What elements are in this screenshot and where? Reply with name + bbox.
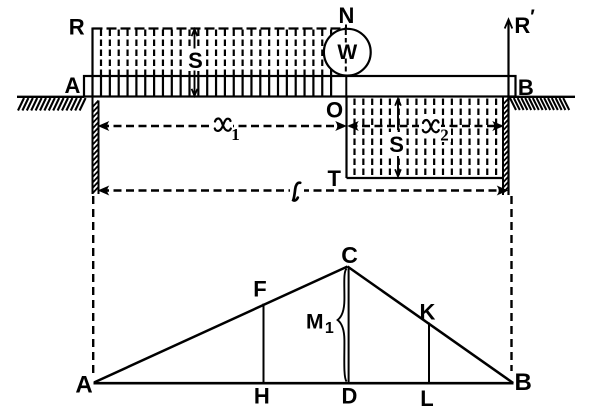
- dimension l: [99, 178, 507, 203]
- label x1: [215, 119, 231, 131]
- svg-text:W: W: [337, 41, 357, 64]
- svg-text:1: 1: [231, 125, 240, 144]
- dimension arrow S (left): [186, 29, 205, 96]
- moment line C-B: [348, 267, 514, 384]
- svg-text:A: A: [64, 73, 80, 98]
- svg-text:N: N: [339, 3, 355, 28]
- svg-text:L: L: [420, 386, 433, 411]
- ordinate K-L: [428, 323, 430, 383]
- support line R: [91, 28, 93, 97]
- dashed projection line right: [510, 196, 512, 371]
- brace M1: [338, 269, 347, 382]
- wheel load W circle: [324, 29, 371, 76]
- svg-text:C: C: [341, 242, 358, 268]
- dimension x1: [99, 114, 346, 135]
- line N-O through wheel: [345, 25, 348, 97]
- svg-text:A: A: [75, 372, 92, 399]
- svg-text:T: T: [327, 166, 341, 191]
- ground left: [17, 97, 86, 111]
- svg-text:B: B: [515, 369, 532, 396]
- ordinate C-D: [348, 268, 350, 382]
- svg-text:′: ′: [530, 7, 535, 28]
- dimension arrow S (right): [388, 99, 406, 177]
- ground right: [509, 97, 576, 110]
- svg-text:K: K: [420, 300, 436, 325]
- svg-text:D: D: [342, 384, 358, 409]
- left wall strip (hatched) below A: [93, 97, 99, 195]
- dashed projection line left: [92, 196, 94, 373]
- svg-text:O: O: [326, 98, 343, 123]
- svg-text:B: B: [518, 75, 534, 100]
- svg-text:R: R: [514, 13, 530, 38]
- baseline A-B: [94, 382, 514, 385]
- distributed load S (right span, under beam): [347, 97, 504, 179]
- svg-text:F: F: [253, 277, 266, 302]
- svg-text:S: S: [188, 48, 203, 73]
- right wall strip (hatched) below B: [503, 97, 509, 196]
- label x2: [437, 127, 451, 142]
- beam AB: [84, 76, 516, 97]
- svg-text:2: 2: [440, 126, 449, 145]
- svg-text:H: H: [254, 384, 270, 409]
- distributed load S (left span): [93, 29, 347, 97]
- svg-text:R: R: [69, 15, 85, 40]
- moment line A-C: [94, 267, 348, 383]
- dimension x2: [349, 114, 503, 135]
- svg-text:M: M: [306, 311, 324, 334]
- support line R' with arrow: [505, 20, 513, 97]
- label l: [293, 183, 300, 201]
- ordinate F-H: [263, 304, 265, 383]
- svg-text:S: S: [389, 132, 404, 157]
- svg-text:1: 1: [325, 320, 334, 337]
